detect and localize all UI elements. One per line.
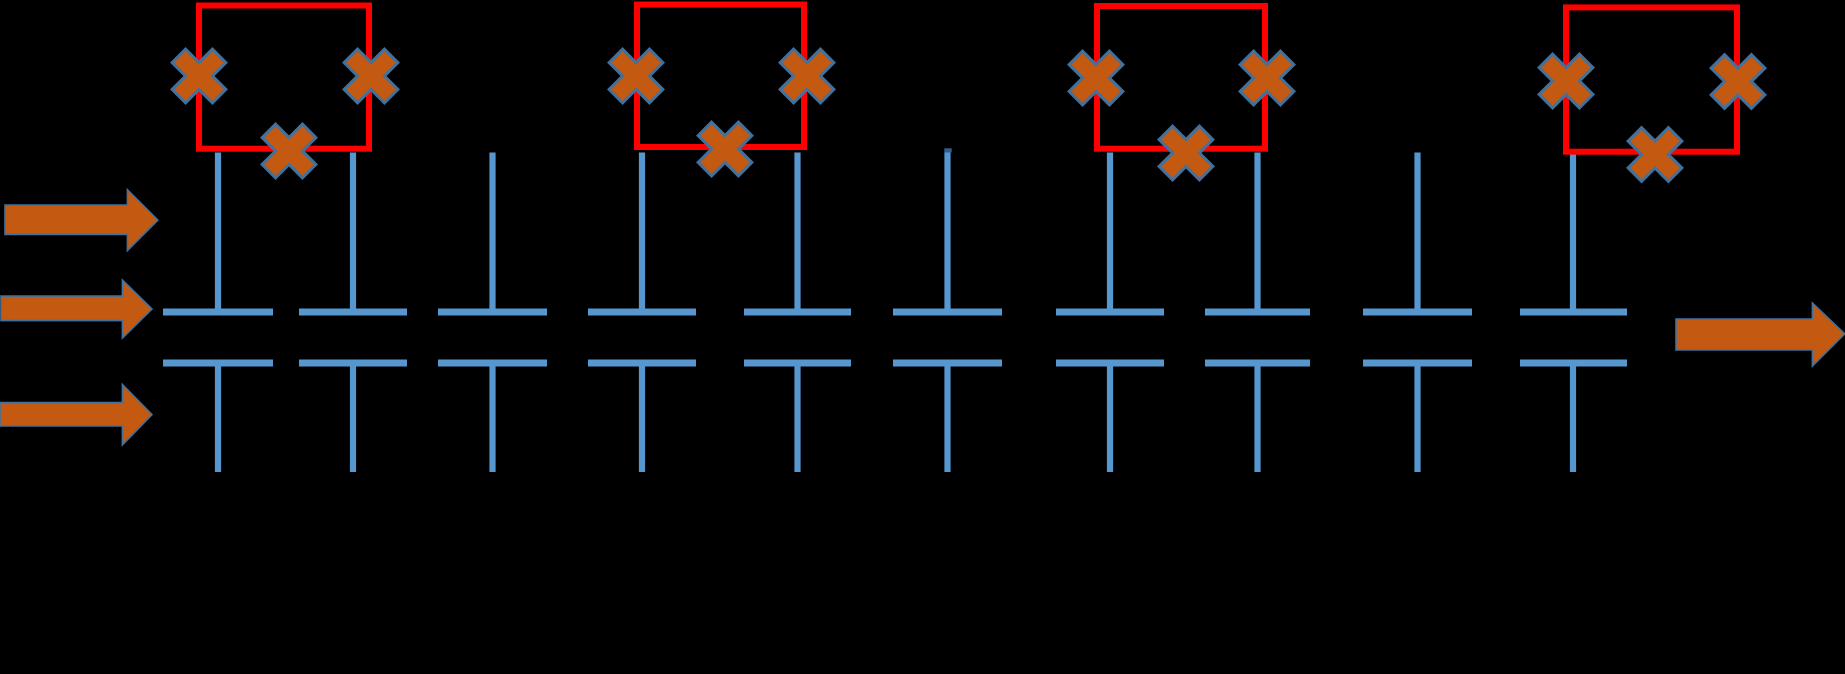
capacitor C1 top plate <box>163 309 273 316</box>
Josephson junction X (left arm of loop L2) <box>596 36 677 117</box>
Josephson junction X (right arm of loop L4) <box>1698 41 1779 122</box>
input idler arrow <box>0 384 152 445</box>
wire: series inductor stub cell 3 <box>489 153 495 314</box>
SQUID loop L1 (red) <box>199 6 369 149</box>
Josephson junction X (bottom arm of loop L3) <box>1146 113 1227 194</box>
capacitor C9 bottom plate <box>1363 360 1472 367</box>
wire: dark tick at top of stub 6 <box>944 148 951 152</box>
SQUID loop L2 (red) <box>637 5 804 148</box>
output arrow <box>1676 303 1845 366</box>
capacitor C4 bottom plate <box>588 360 696 367</box>
wire: series inductor stub cell 5 <box>794 153 800 314</box>
capacitor C2 bottom plate <box>299 360 407 367</box>
wire: ground stub cell 10 <box>1570 363 1576 472</box>
wire: series inductor stub cell 8 <box>1254 153 1260 314</box>
capacitor C7 bottom plate <box>1056 360 1164 367</box>
wire: ground stub cell 5 <box>794 363 800 472</box>
wire: ground stub cell 1 <box>215 363 221 472</box>
Josephson junction X (right arm of loop L1) <box>331 36 412 117</box>
SQUID loop L4 (red) <box>1566 7 1737 151</box>
wire: series inductor stub cell 1 <box>215 153 221 314</box>
capacitor C3 bottom plate <box>438 360 547 367</box>
Josephson junction X (left arm of loop L3) <box>1056 38 1137 119</box>
capacitor C8 bottom plate <box>1205 360 1310 367</box>
input pump arrow <box>5 190 158 251</box>
wire: ground stub cell 8 <box>1254 363 1260 472</box>
Josephson junction X (bottom arm of loop L2) <box>685 109 766 190</box>
capacitor C1 bottom plate <box>163 360 273 367</box>
wire: ground stub cell 3 <box>489 363 495 472</box>
capacitor C10 bottom plate <box>1520 360 1627 367</box>
Josephson junction X (left arm of loop L4) <box>1526 41 1607 122</box>
capacitor C9 top plate <box>1363 309 1472 316</box>
capacitor C3 top plate <box>438 309 547 316</box>
wire: series inductor stub cell 7 <box>1107 153 1113 314</box>
wire: ground stub cell 7 <box>1107 363 1113 472</box>
wire: ground stub cell 6 <box>944 363 950 472</box>
capacitor C6 top plate <box>893 309 1002 316</box>
capacitor C10 top plate <box>1520 309 1627 316</box>
wire: series inductor stub cell 6 <box>944 153 950 314</box>
Josephson junction X (right arm of loop L3) <box>1227 38 1308 119</box>
capacitor C2 top plate <box>299 309 407 316</box>
Josephson junction X (right arm of loop L2) <box>767 36 848 117</box>
capacitor C7 top plate <box>1056 309 1164 316</box>
wire: series inductor stub cell 4 <box>639 153 645 314</box>
capacitor C5 bottom plate <box>744 360 851 367</box>
capacitor C4 top plate <box>588 309 696 316</box>
wire: series inductor stub cell 2 <box>350 153 356 314</box>
wire: ground stub cell 9 <box>1414 363 1420 472</box>
wire: series inductor stub cell 10 <box>1570 153 1576 314</box>
capacitor C5 top plate <box>744 309 851 316</box>
capacitor C8 top plate <box>1205 309 1310 316</box>
wire: ground stub cell 4 <box>639 363 645 472</box>
Josephson junction X (left arm of loop L1) <box>159 36 240 117</box>
wire: series inductor stub cell 9 <box>1414 153 1420 314</box>
wire: ground stub cell 2 <box>350 363 356 472</box>
Josephson junction X (bottom arm of loop L1) <box>249 111 330 192</box>
Josephson junction X (bottom arm of loop L4) <box>1615 114 1696 195</box>
SQUID loop L3 (red) <box>1097 6 1265 149</box>
capacitor C6 bottom plate <box>893 360 1002 367</box>
input signal arrow <box>1 280 152 338</box>
